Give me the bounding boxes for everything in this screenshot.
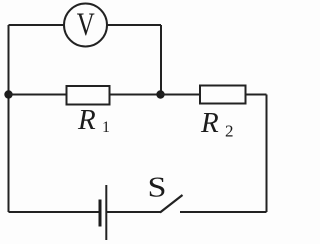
wire: right vertical side [266, 95, 268, 213]
svg-text:S: S [148, 172, 167, 204]
battery negative plate (short thick) [99, 200, 102, 227]
wire: middle node to R2 [161, 94, 201, 96]
wire: battery to switch hinge [107, 211, 161, 213]
switch S blade (open) [160, 195, 183, 213]
wire: bottom-left to battery [9, 211, 99, 213]
wire: voltmeter right to top-right corner [107, 24, 161, 26]
wire: R1 to middle node [110, 94, 161, 96]
node A (left junction dot) [4, 90, 12, 98]
wire: left vertical side [8, 25, 10, 212]
wire: vertical from top corner down to middle node [160, 25, 162, 95]
wire: R2 to right corner [246, 94, 267, 96]
resistor R1 (box) [67, 86, 110, 105]
voltmeter U1 (circle) [64, 4, 107, 47]
node B (middle junction dot) [156, 90, 164, 98]
resistor R2 (box) [200, 86, 246, 104]
svg-text:1: 1 [102, 119, 110, 136]
wire: top-left horizontal to voltmeter [9, 24, 65, 26]
svg-text:R: R [77, 104, 96, 136]
wire: left node to R1 [9, 94, 67, 96]
svg-text:2: 2 [225, 122, 234, 141]
svg-text:R: R [200, 107, 219, 139]
wire: switch contact to bottom-right corner [180, 211, 267, 213]
svg-text:V: V [77, 7, 95, 43]
battery positive plate (long thin) [105, 185, 107, 240]
